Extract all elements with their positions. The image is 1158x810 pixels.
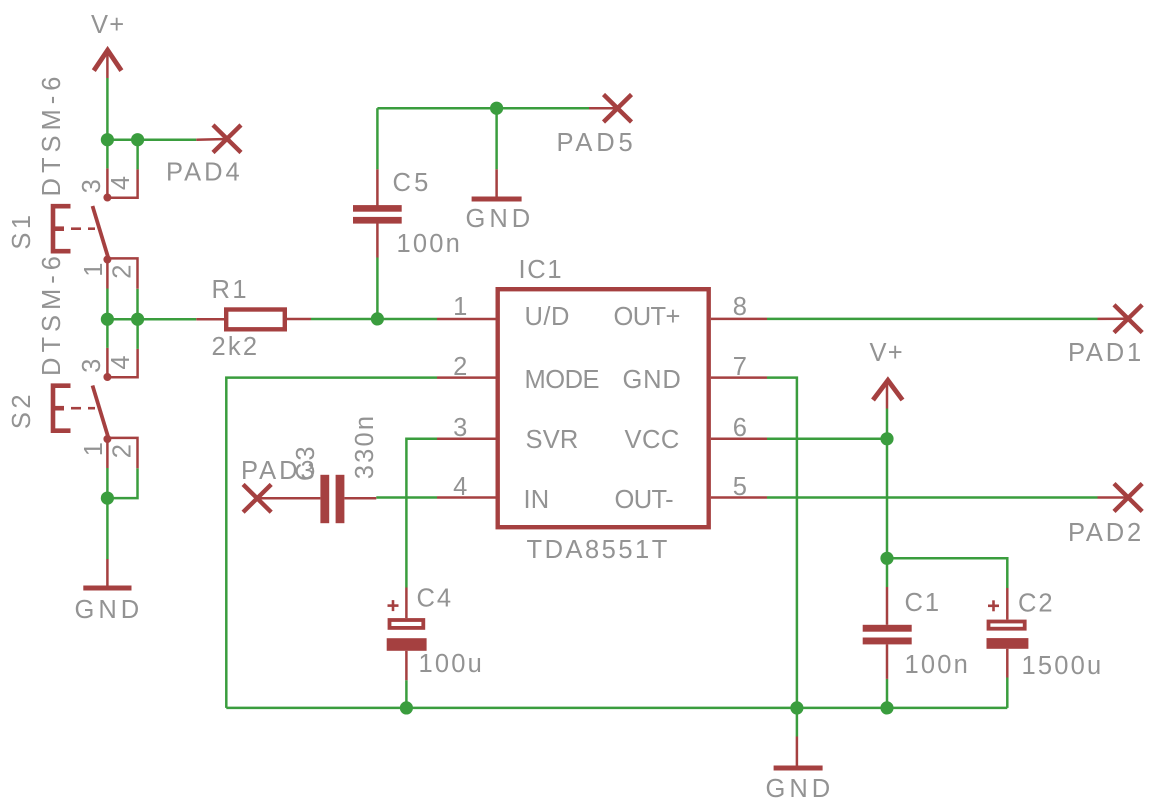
pad PAD3	[243, 484, 271, 512]
wire bottom rail	[226, 707, 1007, 710]
switch S1	[53, 169, 138, 288]
svg-text:1: 1	[80, 261, 108, 276]
svg-text:PAD2: PAD2	[1068, 519, 1144, 547]
svg-text:1: 1	[80, 441, 108, 456]
lead PAD1	[1098, 317, 1129, 320]
capacitor C5	[353, 205, 402, 223]
svg-text:GND: GND	[623, 366, 682, 394]
svg-text:GND: GND	[75, 596, 144, 624]
wire VCC net: pin6 to V+ vertical	[767, 438, 887, 441]
junction top GND	[490, 102, 503, 115]
svg-text:OUT-: OUT-	[615, 486, 674, 514]
svg-text:6: 6	[733, 414, 748, 442]
svg-text:GND: GND	[766, 775, 835, 803]
capacitor C1	[863, 625, 912, 645]
supply symbol V+ right	[873, 380, 903, 400]
S2 pin2 bracket	[110, 438, 138, 468]
lead IC pin7	[711, 376, 767, 379]
junction S1 pin4 top	[131, 133, 144, 146]
lead GND bottom	[796, 737, 799, 766]
wire R1 to IC pin1	[311, 318, 437, 321]
wire C5 bottom to net	[376, 258, 379, 320]
lead S2 GND	[106, 559, 109, 586]
ground symbol bottom-middle	[774, 766, 823, 771]
wire C2 branch bottom	[1006, 678, 1009, 708]
wire top horizontal to GND junction	[377, 107, 496, 110]
wire V+ stem to S1 pin3 junction	[106, 78, 109, 140]
wire GND net: pin7 right and down	[767, 378, 797, 708]
junction C1 top	[880, 552, 893, 565]
wire V+ vertical down to C1 junction	[886, 439, 889, 559]
lead S1 pin1	[106, 261, 109, 289]
wire mid junction pair	[107, 318, 137, 321]
lead S1 pin3	[106, 168, 109, 194]
lead C4 bottom	[405, 651, 408, 680]
lead C5 bottom	[376, 223, 379, 258]
lead C3 right	[344, 497, 376, 500]
svg-text:PAD5: PAD5	[557, 129, 637, 157]
S1 actuator dashed link	[71, 227, 81, 230]
S1 contact pin1 dot	[104, 257, 110, 263]
svg-text:100u: 100u	[419, 650, 485, 678]
svg-text:1500u: 1500u	[1022, 652, 1104, 680]
svg-text:TDA8551T: TDA8551T	[527, 536, 670, 564]
S2 actuator dashed link	[71, 407, 81, 410]
wire GND top symbol stub	[495, 108, 498, 169]
S2 actuator bracket	[53, 386, 71, 431]
S1 arm	[93, 206, 109, 258]
IC U1 TDA8551T box	[498, 289, 709, 527]
S2 contact pin1 dot	[104, 436, 110, 442]
supply symbol V+ top-left	[94, 50, 122, 70]
wire S2 pin4 stub	[136, 319, 139, 349]
capacitor C4 (polarized)	[387, 600, 427, 651]
wire GND bottom stub	[796, 708, 799, 737]
pad PAD2	[1114, 484, 1142, 512]
svg-text:OUT+: OUT+	[614, 303, 680, 331]
wire MODE net: pin2 left and down	[226, 378, 437, 708]
junction mid left	[101, 313, 114, 326]
S1 contact pin3 dot	[104, 195, 110, 201]
pad PAD4	[213, 125, 241, 153]
wire C4 bottom to rail	[405, 680, 408, 708]
capacitor C2 (polarized)	[987, 600, 1029, 649]
wire to PAD4	[138, 138, 197, 141]
lead PAD5	[589, 107, 618, 110]
wire S2 pin2 down and left to junction	[107, 468, 137, 498]
lead C2 bottom	[1006, 649, 1009, 678]
svg-text:C3: C3	[292, 444, 320, 481]
svg-text:5: 5	[733, 473, 748, 501]
svg-text:2: 2	[109, 443, 137, 458]
pad PAD1	[1114, 305, 1142, 333]
svg-text:1: 1	[453, 293, 468, 321]
svg-text:3: 3	[78, 178, 106, 193]
wire S1 pin1 to mid junction	[106, 289, 109, 320]
svg-text:DTSM-6: DTSM-6	[38, 72, 66, 197]
svg-text:4: 4	[107, 175, 135, 190]
wire OUT- net: pin5 to PAD2	[767, 496, 1098, 499]
lead IC pin5	[711, 496, 767, 499]
lead C2 top	[1006, 588, 1009, 620]
lead IC pin2	[437, 376, 496, 379]
wire S2 pin3 stub	[106, 319, 109, 348]
svg-text:C4: C4	[417, 585, 454, 613]
wire C2 branch top	[887, 558, 1007, 588]
lead S2 pin1	[106, 441, 109, 469]
junction C4 bottom rail	[400, 701, 413, 714]
svg-text:C1: C1	[905, 589, 942, 617]
S1 pin4 bracket	[111, 169, 138, 197]
junction S1 pin3 top	[101, 133, 114, 146]
lead S2 pin3	[106, 348, 109, 374]
switch S2	[53, 349, 138, 468]
svg-text:DTSM-6: DTSM-6	[38, 251, 66, 376]
svg-text:8: 8	[733, 293, 748, 321]
svg-text:3: 3	[453, 414, 468, 442]
svg-text:V+: V+	[91, 11, 125, 39]
lead C1 bottom	[886, 644, 889, 679]
svg-text:PAD4: PAD4	[166, 159, 243, 187]
wire S2 pin1 down	[106, 468, 109, 498]
junction C5/R1 net	[371, 312, 384, 325]
ground symbol bottom-left (under S2)	[83, 586, 131, 591]
svg-text:2: 2	[109, 263, 137, 278]
lead IC pin3	[437, 438, 496, 441]
wire S1 pin3 stub	[106, 140, 109, 169]
svg-text:S2: S2	[8, 391, 36, 429]
svg-text:C2: C2	[1018, 589, 1055, 617]
svg-text:IC1: IC1	[519, 256, 564, 284]
wire S1 pin2 to mid junction	[136, 289, 139, 319]
junction VCC / V+	[880, 432, 893, 445]
wire S1 pin4 stub	[136, 140, 139, 170]
svg-text:PAD1: PAD1	[1068, 339, 1144, 367]
lead IC pin6	[711, 438, 767, 441]
lead GND top	[495, 169, 498, 196]
wire C1 bottom lead	[886, 679, 889, 708]
wire OUT+ net: pin8 to PAD1	[767, 318, 1098, 321]
wire GND junction to PAD5	[497, 107, 589, 110]
lead R1 right	[287, 318, 311, 321]
C2 plus sign	[988, 604, 999, 607]
lead R1 left	[196, 318, 224, 321]
wire bottom junction to GND lead	[106, 498, 109, 559]
svg-text:2: 2	[453, 353, 468, 381]
lead IC pin4	[437, 496, 496, 499]
lead V+ right stem	[886, 382, 889, 409]
lead C5 top	[376, 169, 379, 206]
S2 arm	[93, 386, 109, 438]
pad PAD5	[604, 95, 632, 123]
lead PAD3	[257, 497, 320, 500]
lead C1 top	[886, 587, 889, 625]
wire SVR net: pin3 left and down to C4	[406, 439, 437, 588]
lead PAD4	[196, 138, 227, 141]
svg-text:IN: IN	[524, 486, 550, 514]
junction GND bottom rail	[790, 701, 803, 714]
svg-text:R1: R1	[212, 276, 250, 304]
lead V+ top-left stem	[106, 52, 109, 78]
svg-text:330n: 330n	[351, 414, 379, 480]
wire C1 top lead	[886, 558, 889, 587]
svg-text:GND: GND	[466, 205, 535, 233]
S1 pin2 bracket	[110, 258, 138, 288]
lead C4 top	[405, 588, 408, 619]
wire mid junction to R1	[138, 318, 197, 321]
S1 actuator bracket	[53, 206, 71, 251]
S2 contact pin3 dot	[104, 374, 110, 380]
lead IC pin8	[711, 318, 767, 321]
svg-text:4: 4	[453, 473, 468, 501]
svg-text:C5: C5	[393, 169, 432, 197]
ground symbol top (near PAD5)	[472, 197, 522, 202]
resistor R1	[226, 310, 285, 330]
capacitor C3	[320, 475, 344, 523]
S2 pin4 bracket	[111, 349, 138, 377]
svg-text:S1: S1	[8, 211, 36, 249]
svg-text:2k2: 2k2	[212, 333, 260, 361]
junction mid right	[131, 313, 144, 326]
svg-text:3: 3	[78, 358, 106, 373]
svg-text:V+: V+	[870, 339, 904, 367]
svg-text:SVR: SVR	[526, 426, 579, 454]
C4 plus sign	[388, 604, 399, 607]
lead PAD2	[1098, 496, 1129, 499]
svg-text:VCC: VCC	[625, 426, 680, 454]
svg-text:U/D: U/D	[525, 303, 570, 331]
svg-text:100n: 100n	[397, 230, 463, 258]
svg-text:MODE: MODE	[525, 366, 600, 394]
wire junction pair top S1	[107, 138, 137, 141]
wire C5 top up	[376, 108, 379, 169]
svg-text:7: 7	[733, 353, 748, 381]
junction C1 bottom rail	[880, 701, 893, 714]
junction S2 bottom	[101, 492, 114, 505]
wire V+ right stem	[886, 409, 889, 439]
svg-text:4: 4	[107, 354, 135, 369]
lead IC pin1	[437, 318, 496, 321]
wire IN net: C3 to IC pin4	[376, 496, 437, 499]
svg-text:100n: 100n	[905, 651, 971, 679]
